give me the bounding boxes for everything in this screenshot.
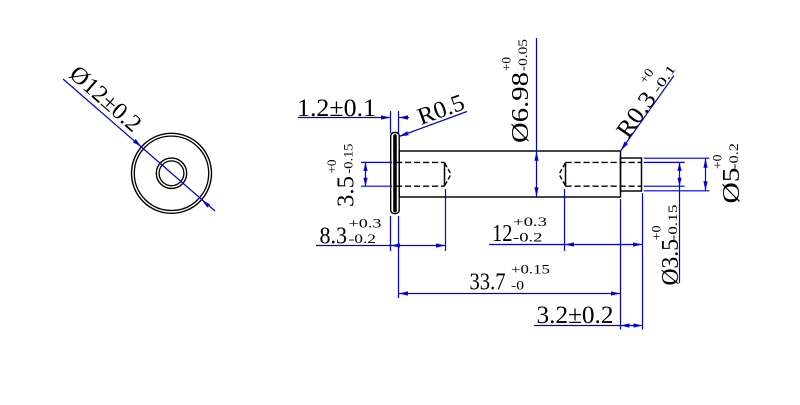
svg-text:-0.05: -0.05 (515, 39, 530, 71)
svg-text:Ø6.98: Ø6.98 (508, 72, 534, 143)
svg-text:+0: +0 (324, 160, 339, 174)
svg-text:Ø3.5: Ø3.5 (658, 239, 684, 286)
svg-text:3.5: 3.5 (334, 176, 360, 207)
svg-text:+0.3: +0.3 (349, 216, 382, 231)
svg-text:-0.15: -0.15 (665, 205, 680, 241)
svg-text:8.3: 8.3 (320, 224, 348, 250)
svg-text:3.2±0.2: 3.2±0.2 (537, 300, 614, 329)
svg-text:-0.2: -0.2 (349, 231, 377, 246)
svg-text:+0: +0 (710, 155, 725, 170)
svg-text:+0: +0 (649, 226, 664, 241)
svg-text:12: 12 (492, 221, 513, 247)
svg-text:Ø5: Ø5 (719, 168, 745, 204)
svg-text:+0.3: +0.3 (513, 214, 547, 229)
svg-text:1.2±0.1: 1.2±0.1 (297, 93, 376, 122)
svg-text:+0.15: +0.15 (511, 262, 550, 277)
svg-text:-0.2: -0.2 (726, 143, 741, 169)
svg-text:-0.2: -0.2 (513, 230, 543, 245)
svg-text:-0: -0 (511, 278, 524, 293)
svg-text:-0.15: -0.15 (341, 144, 356, 174)
svg-text:+0: +0 (499, 57, 514, 71)
svg-text:33.7: 33.7 (470, 270, 506, 296)
